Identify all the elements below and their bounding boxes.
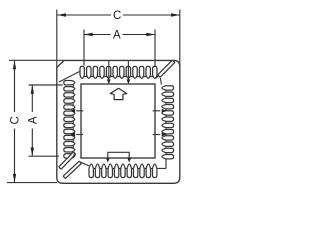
svg-text:C: C [10,116,22,124]
svg-text:C: C [113,10,121,22]
svg-text:A: A [113,30,121,42]
svg-text:A: A [27,116,39,124]
